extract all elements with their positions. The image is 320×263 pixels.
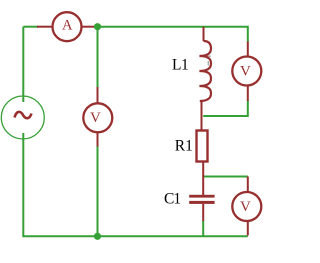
svg-text:A: A bbox=[62, 17, 73, 33]
svg-text:R1: R1 bbox=[175, 137, 193, 154]
svg-text:C1: C1 bbox=[164, 190, 180, 207]
svg-text:V: V bbox=[90, 110, 101, 126]
svg-text:V: V bbox=[240, 199, 251, 215]
svg-text:L1: L1 bbox=[172, 56, 188, 73]
svg-text:V: V bbox=[240, 64, 251, 80]
